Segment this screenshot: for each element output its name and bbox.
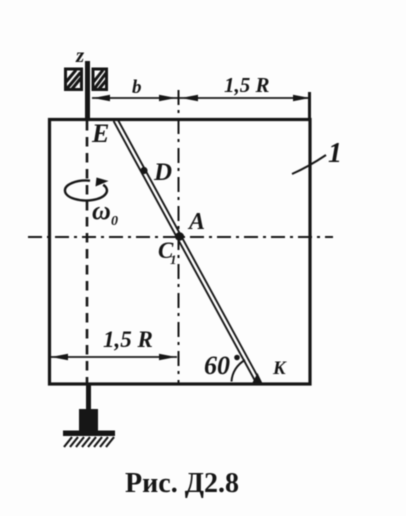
svg-text:A: A [187,209,205,235]
svg-text:0: 0 [111,214,118,229]
svg-text:b: b [132,77,142,98]
svg-text:K: K [272,358,287,379]
svg-text:1: 1 [170,252,177,267]
svg-text:E: E [91,119,109,148]
svg-text:1: 1 [328,138,342,169]
svg-text:Рис. Д2.8: Рис. Д2.8 [125,468,239,499]
svg-text:D: D [153,159,172,186]
svg-text:60: 60 [204,351,230,380]
svg-text:1,5 R: 1,5 R [224,73,270,97]
svg-text:1,5 R: 1,5 R [103,327,153,352]
svg-text:z: z [75,43,85,67]
svg-text:ω: ω [92,196,111,225]
